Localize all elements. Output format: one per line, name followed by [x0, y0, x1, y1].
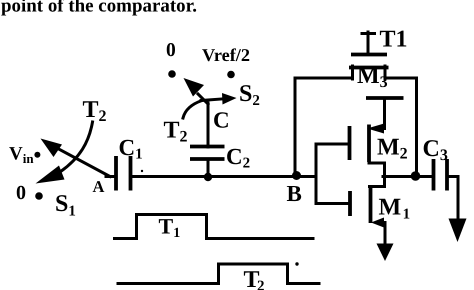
- switch S2 toggle arc: [183, 101, 202, 119]
- transistor M2 source arrow: [367, 124, 384, 134]
- svg-text:M2: M2: [377, 135, 408, 163]
- svg-text:S1: S1: [55, 191, 76, 220]
- node Vin contact dot: [34, 152, 40, 158]
- transistor M2 source lead to supply bar: [382, 98, 385, 129]
- transistor M1 drain lead: [370, 176, 385, 187]
- svg-text:Vin: Vin: [9, 144, 34, 167]
- svg-text:T2: T2: [164, 118, 188, 146]
- ground arrow below C3: [449, 219, 467, 243]
- wire switch S2 pivot down to C2: [207, 103, 210, 147]
- svg-text:T2: T2: [244, 267, 265, 290]
- svg-text:T1: T1: [380, 27, 408, 53]
- capacitor C1: [116, 156, 131, 191]
- node Vref/2 contact dot: [227, 71, 235, 79]
- inverter input top stub to M2 gate: [316, 143, 350, 146]
- svg-text:0: 0: [166, 40, 176, 61]
- svg-text:S2: S2: [239, 81, 260, 109]
- wire C2 to main wire: [207, 159, 210, 177]
- transistor M3 gate bar: [351, 53, 387, 57]
- transistor M1 gate bar: [348, 191, 352, 216]
- switch S1 arm with arrowhead toward Vin: [41, 139, 111, 177]
- ground arrow below M1: [377, 244, 394, 262]
- transistor M1 source lead down: [382, 223, 385, 245]
- transistor M3 source lead left: [351, 66, 354, 79]
- wire A to C1: [106, 175, 116, 178]
- transistor M2 drain lead: [369, 163, 385, 177]
- transistor M3 drain lead right: [384, 66, 387, 79]
- svg-text:point of the comparator.: point of the comparator.: [1, 0, 197, 17]
- svg-text:M1: M1: [379, 195, 411, 223]
- svg-text:C2: C2: [226, 144, 250, 172]
- dot artifact right of T2 pulse: [295, 262, 298, 265]
- wire M3 right terminal down to output node: [385, 78, 417, 173]
- transistor M3 gate lead: [367, 32, 370, 53]
- node 0 contact dot of S2: [168, 70, 176, 78]
- transistor M1 channel: [369, 185, 373, 223]
- node 0 contact dot of S1: [35, 192, 43, 200]
- transistor M3 channel bar: [349, 66, 389, 70]
- svg-text:T1: T1: [159, 214, 181, 242]
- wire B up and over to M3 left terminal: [295, 78, 353, 174]
- waveform T2: [118, 264, 319, 284]
- junction dot C2/main wire: [204, 173, 212, 181]
- svg-text:Vref/2: Vref/2: [202, 45, 250, 65]
- svg-text:0: 0: [16, 182, 26, 204]
- svg-text:A: A: [93, 177, 105, 196]
- svg-text:C: C: [213, 108, 230, 133]
- capacitor C3: [434, 159, 448, 191]
- svg-text:C1: C1: [119, 135, 143, 163]
- svg-text:T2: T2: [83, 97, 107, 125]
- transistor M1 source arrow: [371, 218, 384, 228]
- switch S2 direction arrow toward Vref/2: [201, 93, 237, 105]
- wire C3 right down to output arrow: [447, 177, 458, 220]
- inverter input riser: [315, 144, 318, 204]
- inverter input bottom stub to M1 gate: [316, 202, 350, 205]
- capacitor C2: [190, 147, 225, 160]
- node B junction dot: [292, 171, 301, 180]
- switch S2 arm with arrowhead toward 0: [184, 78, 209, 104]
- switch S1 toggle arc with arrowhead toward 0: [36, 122, 93, 184]
- speck artifact right of C1: [141, 170, 143, 172]
- waveform T1: [115, 215, 314, 239]
- output junction dot: [411, 171, 421, 181]
- wire output node: [383, 175, 434, 178]
- transistor M3 gate terminal tick: [362, 32, 375, 35]
- supply bar above M2: [366, 96, 404, 100]
- wire main horizontal C1 to inverter input: [131, 175, 317, 178]
- transistor M2 channel: [367, 125, 371, 163]
- svg-text:C3: C3: [423, 136, 448, 164]
- transistor M2 gate bar: [348, 126, 352, 160]
- svg-text:B: B: [287, 181, 302, 206]
